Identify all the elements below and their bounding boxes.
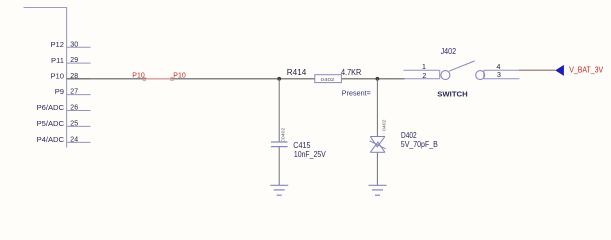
svg-text:P11: P11 [51,56,64,65]
svg-text:D402: D402 [401,131,417,140]
svg-text:0402: 0402 [381,119,387,131]
switch J402 pin 2 stub [405,78,440,80]
svg-text:30: 30 [70,41,78,48]
switch J402 left common bar [439,70,441,79]
junction node at R414 left / C415 [277,77,281,81]
switch J402 left contact circle [441,71,450,80]
svg-text:R414: R414 [287,68,307,77]
svg-text:SWITCH: SWITCH [437,90,468,99]
pin 29 stub [67,62,91,64]
svg-text:P12: P12 [50,40,64,49]
switch J402 pin 3 stub [484,78,520,80]
diode D402 (bidirectional TVS) [370,137,386,153]
svg-text:Present=: Present= [342,89,371,98]
svg-text:2: 2 [422,73,426,80]
power port triangle V_BAT_3V [555,65,564,76]
net label anchor square 2 [171,78,174,81]
switch J402 right common bar [483,70,485,79]
junction node at R414 right / D402 [376,77,380,81]
svg-text:3: 3 [497,72,501,79]
svg-text:P4/ADC: P4/ADC [37,135,65,144]
switch J402 arm [449,61,475,71]
svg-text:25: 25 [70,120,78,127]
capacitor C415 bottom plate [271,146,288,148]
resistor R414 body [315,75,342,83]
pin 24 stub [67,141,91,143]
capacitor C415 top plate [271,141,288,143]
switch J402 pin 4 stub [484,69,519,71]
wire: D402 to ground [376,152,378,185]
svg-text:C415: C415 [293,141,311,150]
ground (below D402) [369,185,387,195]
wire: vertical to C415 [278,79,280,142]
svg-text:P10: P10 [173,73,186,80]
switch J402 pin 1 stub [404,69,440,71]
svg-text:P10: P10 [132,73,145,80]
svg-text:P9: P9 [55,87,64,96]
wire: C415 to ground [278,147,280,186]
wire: net P10 from pin 28 to switch [67,78,405,80]
wire: highlighted pink segment between P10 labels [146,78,171,80]
IC U? body edge [24,8,67,148]
pin 25 stub [67,125,91,127]
switch J402 right contact circle [476,71,485,80]
net label anchor square 1 [143,78,146,81]
svg-text:26: 26 [70,105,78,112]
svg-text:V_BAT_3V: V_BAT_3V [569,65,604,74]
wire: vertical to D402 [376,79,378,137]
svg-text:29: 29 [70,57,78,64]
svg-text:P10: P10 [50,71,64,80]
svg-text:0402: 0402 [321,77,335,83]
pin 26 stub [67,110,91,112]
svg-text:5V_70pF_B: 5V_70pF_B [401,140,438,149]
svg-text:27: 27 [70,89,78,96]
svg-text:P5/ADC: P5/ADC [37,119,65,128]
svg-text:4.7KR: 4.7KR [341,68,362,77]
pin 30 stub [67,46,91,48]
svg-text:10nF_25V: 10nF_25V [294,150,326,159]
svg-text:1: 1 [422,64,426,71]
svg-text:24: 24 [70,136,78,143]
pin 27 stub [67,94,91,96]
svg-text:C0402: C0402 [280,127,286,143]
svg-text:J402: J402 [441,46,457,56]
svg-text:P6/ADC: P6/ADC [37,103,65,112]
pin 28 stub [67,78,91,80]
svg-text:4: 4 [497,64,501,71]
wire: switch pin 4 to V_BAT_3V port [519,69,555,71]
ground (below C415) [270,185,288,195]
